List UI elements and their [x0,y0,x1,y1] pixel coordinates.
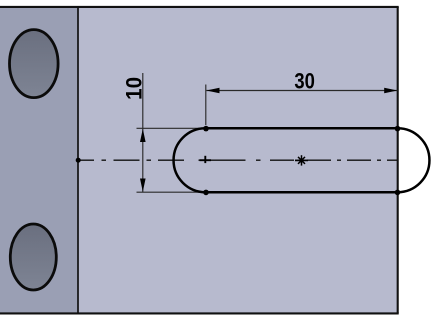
dim30 arrow left [206,88,219,94]
centerline endpoint node on left edge [76,158,81,163]
dim30 dimension line [206,90,397,92]
slot outline (sketch profile) [174,128,430,192]
slot tangent point top-right [395,126,401,132]
slot tangent point bottom-right [395,190,401,196]
part bottom edge [0,312,399,314]
slot tangent point top-left [203,126,209,132]
dim30 left extension line [205,85,207,126]
slot tangent point bottom-left [203,190,209,196]
dim10 dimension line [142,73,144,192]
dim10 arrow up [140,129,146,142]
left arc center cross marker [204,156,206,163]
dim10 top extension line [137,127,206,129]
dim10 bottom extension line [137,191,206,193]
edge between strip and face [77,7,79,314]
part top edge [0,6,399,8]
hole ellipse top [10,30,59,98]
part right edge [397,7,399,314]
slot center star marker [295,155,308,165]
part left side strip face [0,7,78,314]
svg-text:10: 10 [121,77,146,100]
part main front face [78,7,398,314]
hole ellipse bottom [10,224,56,290]
dim10 arrow down [140,179,146,192]
dim30 arrow right [384,88,397,94]
centerline (dash-dot construction line) [78,159,398,161]
svg-text:30: 30 [294,69,315,94]
